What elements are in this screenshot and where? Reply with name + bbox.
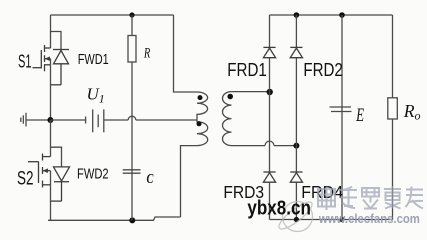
wire bottom-right rail	[270, 219, 393, 221]
wire FRD1 to secondary node	[269, 58, 271, 92]
diode FRD2	[290, 47, 302, 57]
diode FRD1	[263, 47, 275, 57]
watermark chinese characters	[318, 186, 423, 210]
wire S2 drain lead	[50, 120, 52, 157]
node R top	[129, 12, 134, 17]
svg-text:S2: S2	[17, 168, 34, 189]
wire node to FRD3	[269, 92, 271, 172]
wire S1 drain-diode jog	[51, 32, 62, 50]
wire S1 source to node	[50, 59, 52, 120]
wire FRD2 branch upper	[295, 15, 297, 47]
wire FRD4 to bottom rail	[295, 182, 297, 219]
wire FRD2 to secondary bottom node	[295, 58, 297, 146]
capacitor C	[123, 170, 141, 221]
node C bottom	[129, 217, 135, 223]
node secondary bottom junction	[293, 143, 299, 149]
svg-text:FWD2: FWD2	[77, 166, 109, 182]
svg-text:R: R	[143, 46, 150, 62]
node secondary top junction	[267, 89, 273, 95]
wire FRD3 to bottom rail	[269, 182, 271, 219]
svg-text:U1: U1	[87, 85, 105, 106]
wire primary bottom lead	[181, 146, 198, 217]
capacitor E	[330, 15, 352, 220]
transformer primary winding 1	[197, 92, 208, 120]
svg-text:FRD2: FRD2	[303, 59, 342, 80]
node rail E	[339, 12, 345, 18]
wire top-right rail	[270, 14, 393, 16]
wire rail to primary top	[174, 15, 198, 92]
transistor S2	[28, 154, 51, 188]
transformer primary winding 2	[197, 120, 208, 146]
wire S2 drain-diode jog	[51, 147, 62, 167]
svg-text:www.elecfans.com: www.elecfans.com	[318, 211, 420, 226]
svg-text:FWD1: FWD1	[78, 52, 109, 68]
transformer primary dot 1	[198, 95, 203, 100]
diode FWD2	[51, 167, 70, 201]
wire secondary bottom lead with hop	[232, 141, 297, 146]
wire secondary top lead	[232, 91, 270, 93]
node bottom rail E	[339, 217, 344, 222]
transistor S1	[33, 45, 51, 71]
transformer secondary dot	[227, 94, 233, 100]
battery U1	[86, 109, 104, 132]
ground	[21, 113, 51, 127]
wire node to battery	[51, 119, 86, 121]
resistor Ro	[388, 15, 398, 220]
wire node to FRD4	[295, 146, 297, 172]
wire FRD1 branch upper	[269, 15, 271, 47]
transformer secondary winding	[223, 92, 232, 146]
svg-text:Ro: Ro	[403, 101, 421, 123]
resistor R	[128, 15, 136, 170]
node switch midpoint	[47, 117, 53, 123]
transformer primary dot 2	[197, 121, 202, 126]
wire S2 source to bottom rail	[50, 171, 52, 221]
diode FWD1	[51, 50, 70, 85]
svg-text:ybx8.cn: ybx8.cn	[247, 197, 311, 219]
diode FRD3	[263, 172, 275, 182]
watermark logo circle	[276, 198, 316, 233]
wire S1 drain lead	[50, 15, 52, 48]
node bottom rail FRD4	[294, 217, 299, 222]
svg-text:S1: S1	[18, 50, 32, 71]
wire bottom-left rail	[48, 217, 181, 220]
svg-text:E: E	[355, 105, 364, 126]
wire battery to center tap with hop	[104, 116, 197, 120]
diode FRD4	[290, 172, 302, 182]
node rail FRD2	[294, 12, 300, 18]
svg-text:FRD1: FRD1	[227, 59, 266, 80]
svg-text:C: C	[147, 172, 154, 187]
wire top-left rail	[51, 14, 174, 16]
